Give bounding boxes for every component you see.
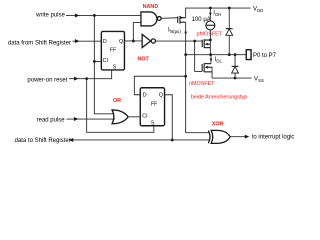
wire: port line P0-P7 xyxy=(186,54,246,56)
label: 100 uA xyxy=(192,17,211,23)
port pin box P0 to P7 xyxy=(246,50,251,60)
svg-text:OR: OR xyxy=(113,98,121,104)
node: junction port net to FF2 D xyxy=(184,75,187,78)
node: port junction lower diode xyxy=(234,53,237,56)
label: pMOSFET (red) xyxy=(197,31,223,37)
label: VDD xyxy=(253,7,263,13)
node: VSS junction at diode xyxy=(234,77,237,80)
svg-text:FF: FF xyxy=(110,48,117,54)
svg-text:FF: FF xyxy=(151,101,158,107)
label: XOR (red) xyxy=(212,121,224,127)
wire: power-on reset to FF1 S with arrowhead xyxy=(69,70,112,81)
gate: NOT U2 xyxy=(142,34,155,47)
label: Iht(pu) current xyxy=(168,28,181,35)
wire: T3 drain up to port line with IOL arrow xyxy=(210,55,213,64)
label: data to Shift Register xyxy=(15,138,71,144)
wire: T1 drain down to port line with current arrow xyxy=(184,22,187,54)
wire: T3 gate branch xyxy=(195,41,203,71)
wire: VDD to current source with IOH arrow xyxy=(209,8,212,21)
wire: NOT output line to T2 gate xyxy=(156,40,202,42)
wire: write pulse vertical to FF1 CI and OR gate xyxy=(94,15,113,113)
node: port junction upper diode xyxy=(228,53,231,56)
svg-text:data to Shift Register: data to Shift Register xyxy=(15,138,71,144)
wire: upper diode branch VDD to port xyxy=(228,8,230,55)
label: to interrupt logic xyxy=(252,135,295,141)
wire: data input to FF1 D with arrowhead xyxy=(72,39,101,43)
svg-text:pMOSFET: pMOSFET xyxy=(197,31,223,37)
wire: stub to FF1 CI xyxy=(94,60,101,62)
svg-text:data from Shift Register: data from Shift Register xyxy=(8,41,71,47)
diode D1 to VDD xyxy=(226,29,233,36)
wire: XOR output to interrupt logic with arrowhead xyxy=(230,135,249,139)
wire: branch from Q1 up to NAND input 2 xyxy=(133,22,141,41)
svg-text:Q: Q xyxy=(159,93,163,99)
node: junction to T3 gate branch xyxy=(193,40,196,43)
svg-text:to interrupt logic: to interrupt logic xyxy=(252,135,295,141)
transistor T3 nMOSFET xyxy=(202,63,212,72)
label: write pulse xyxy=(35,13,65,19)
flip-flop FF1 xyxy=(101,31,124,70)
svg-text:OL: OL xyxy=(216,58,222,63)
svg-text:CI: CI xyxy=(103,58,108,64)
label: NAND (red) xyxy=(143,4,159,10)
label: nMOSFET (red) xyxy=(189,81,215,87)
wire: lower diode branch port to VSS xyxy=(234,55,236,78)
node: data line junction xyxy=(171,139,174,142)
svg-text:CI: CI xyxy=(142,114,147,120)
svg-text:OH: OH xyxy=(215,12,221,17)
svg-text:power-on reset: power-on reset xyxy=(27,78,67,84)
wire: write pulse input with arrowhead xyxy=(66,13,141,17)
wire: port net to FF2 D input xyxy=(134,76,185,95)
label: data from Shift Register xyxy=(8,41,71,47)
flip-flop FF2 xyxy=(140,88,164,127)
svg-text:S: S xyxy=(113,65,117,71)
wire: FF1 Q output to NOT gate xyxy=(124,40,142,42)
svg-text:Q: Q xyxy=(119,39,123,45)
node: Q1 junction xyxy=(132,40,135,43)
gate: NAND U1 xyxy=(141,12,161,26)
wire: current source to T2 drain xyxy=(209,30,211,55)
wire: port net down-branch to FF2 D and XOR xyxy=(186,55,209,133)
label: beide Anreicherungstyp (red) xyxy=(191,95,247,101)
svg-text:NOT: NOT xyxy=(137,56,149,62)
wire: read pulse to OR input with arrowhead xyxy=(66,117,115,121)
label: IOL current xyxy=(214,57,222,63)
transistor T2 xyxy=(202,39,210,48)
svg-text:nMOSFET: nMOSFET xyxy=(189,81,215,87)
node: VDD junction at diode xyxy=(228,7,231,10)
wire: power-on reset branch to FF2 S xyxy=(87,79,154,133)
node: port junction T1 xyxy=(184,53,187,56)
diode D2 to VSS xyxy=(232,66,239,73)
label: read pulse xyxy=(37,118,66,124)
wire: VDD rail xyxy=(186,8,251,18)
wire: OR output to FF2 CI xyxy=(128,116,140,118)
svg-text:beide Anreicherungstyp: beide Anreicherungstyp xyxy=(191,95,247,101)
svg-text:XOR: XOR xyxy=(212,121,224,127)
transistor T1 pMOSFET xyxy=(178,16,186,24)
svg-text:read pulse: read pulse xyxy=(37,118,66,124)
wire: NAND output to pMOSFET gate xyxy=(161,17,178,20)
svg-text:100 µA: 100 µA xyxy=(192,17,211,23)
label: P0 to P7 xyxy=(253,53,277,59)
svg-text:D: D xyxy=(103,39,107,45)
wire: T3 source to VSS rail xyxy=(211,67,213,78)
label: OR (red) xyxy=(113,98,121,104)
node: VDD junction at current source xyxy=(209,7,212,10)
svg-text:SS: SS xyxy=(258,78,264,83)
node: port junction T2/T3 xyxy=(209,53,212,56)
svg-text:NAND: NAND xyxy=(143,4,159,10)
wire: data to Shift Register line with arrowhead xyxy=(69,138,173,142)
svg-text:ht(pu): ht(pu) xyxy=(170,29,182,34)
node: T2 drain junction xyxy=(209,39,212,42)
svg-text:D: D xyxy=(143,93,147,99)
svg-text:write pulse: write pulse xyxy=(35,13,65,19)
wire: data line to XOR input 2 xyxy=(172,139,210,141)
current source 100uA xyxy=(206,21,215,30)
node: power-on reset junction xyxy=(85,77,88,80)
wire: FF2 Q to data line xyxy=(165,95,173,140)
label: NOT (red) xyxy=(137,56,149,62)
label: VSS xyxy=(254,77,264,83)
svg-text:P0 to P7: P0 to P7 xyxy=(253,53,277,59)
wire: VSS rail xyxy=(212,77,252,79)
label: IOH current xyxy=(213,11,221,17)
label: power-on reset xyxy=(27,78,67,84)
node: CI1 junction xyxy=(93,60,96,63)
node: write pulse junction xyxy=(93,14,96,17)
gate: OR U3 xyxy=(112,110,128,124)
svg-text:DD: DD xyxy=(257,8,263,13)
gate: XOR U4 xyxy=(208,130,230,143)
svg-text:S: S xyxy=(151,121,155,127)
